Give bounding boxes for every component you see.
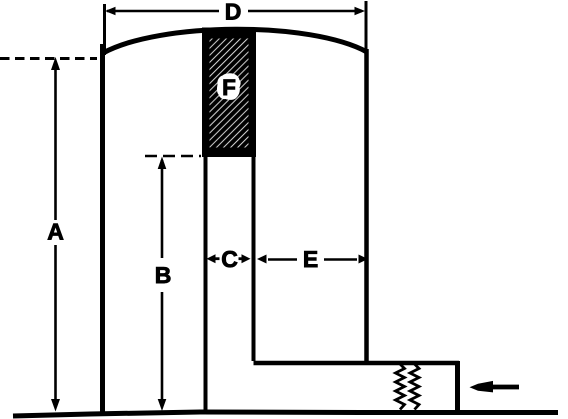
arrowhead C right	[242, 254, 251, 263]
svg-text:B: B	[155, 262, 172, 288]
dimension line A	[54, 62, 57, 220]
arrowhead B bottom	[158, 399, 167, 411]
extension line left for D	[103, 4, 106, 55]
hatched block F	[202, 28, 256, 158]
right outline of vessel	[364, 49, 369, 363]
arrowhead E right	[359, 255, 369, 264]
foot right edge	[455, 361, 460, 414]
dashed reference line for B	[145, 155, 201, 158]
foot top edge	[254, 361, 460, 366]
inner column right line	[252, 156, 256, 361]
white blob behind label F	[217, 73, 241, 100]
dimension line E	[268, 258, 297, 261]
zigzag break line 1	[396, 364, 405, 410]
arrowhead B top	[158, 157, 167, 170]
arrowhead D right	[355, 7, 366, 16]
dashed reference line at top left	[0, 57, 97, 60]
svg-text:C: C	[221, 246, 238, 272]
ground baseline	[13, 412, 558, 416]
arrowhead E left	[257, 255, 267, 264]
svg-text:D: D	[225, 0, 242, 25]
left outline of vessel	[100, 44, 105, 413]
inner column left line	[204, 156, 208, 412]
zigzag break line 2	[410, 364, 419, 410]
dimension line D	[107, 10, 219, 13]
arrowhead D left	[105, 7, 116, 16]
inlet arrow pointing left	[470, 381, 520, 393]
arc top of vessel	[103, 29, 367, 53]
arrowhead A bottom	[51, 399, 60, 412]
extension line right for D	[365, 1, 368, 49]
arrowhead C left	[207, 254, 216, 263]
arrowhead A top	[51, 57, 60, 70]
svg-text:A: A	[47, 219, 64, 245]
dimension line B	[161, 160, 164, 258]
svg-text:F: F	[222, 75, 236, 100]
svg-text:E: E	[303, 246, 318, 272]
